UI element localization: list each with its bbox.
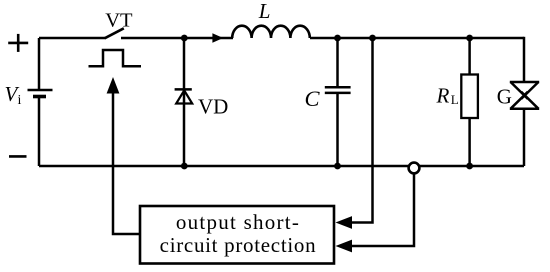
junction dot at sense line top xyxy=(369,35,376,42)
wire G branch upper xyxy=(523,37,526,82)
pulse waveform symbol xyxy=(89,50,142,66)
switch VT blade xyxy=(105,28,124,38)
junction dot at diode top xyxy=(181,35,188,42)
inductor L xyxy=(232,26,310,38)
wire capacitor branch upper xyxy=(336,38,339,88)
gate drive arrowhead xyxy=(107,77,120,94)
wire bottom rail xyxy=(39,165,524,168)
svg-text:i: i xyxy=(18,93,22,108)
wire top rail from switch to inductor xyxy=(121,37,233,40)
svg-text:circuit protection: circuit protection xyxy=(160,233,317,257)
wire G branch lower xyxy=(523,109,526,166)
svg-text:output short-: output short- xyxy=(176,210,300,234)
sense wire arrowhead into box xyxy=(336,216,353,229)
resistor RL body xyxy=(461,75,478,119)
wire top rail left segment xyxy=(39,37,106,40)
battery Vi xyxy=(28,90,53,97)
wire resistor branch upper xyxy=(468,38,471,75)
svg-text:VT: VT xyxy=(105,10,133,32)
gate drive wire from protection box to VT xyxy=(113,90,140,234)
plus terminal xyxy=(8,34,28,52)
svg-text:R: R xyxy=(436,84,450,108)
junction dot at resistor top xyxy=(466,35,473,42)
junction dot at capacitor top xyxy=(334,35,341,42)
svg-text:VD: VD xyxy=(198,94,228,118)
wire left branch lower xyxy=(38,97,41,167)
junction dot at resistor bottom xyxy=(466,163,473,170)
svg-text:G: G xyxy=(497,85,512,109)
wire resistor branch lower xyxy=(468,118,471,166)
wire top rail from inductor to right edge xyxy=(310,37,524,40)
svg-text:C: C xyxy=(305,86,321,111)
voltage sense wire to protection box xyxy=(348,38,373,223)
current sense wire to protection box xyxy=(348,173,414,246)
svg-text:L: L xyxy=(451,92,459,107)
svg-text:L: L xyxy=(258,0,271,23)
current sense arrowhead into box xyxy=(336,240,353,253)
capacitor C plates xyxy=(325,87,351,93)
protection box xyxy=(140,206,334,264)
minus terminal xyxy=(9,155,27,158)
junction dot at capacitor bottom xyxy=(334,163,341,170)
current flow arrowhead on wire xyxy=(212,33,223,43)
current sensor node circle xyxy=(409,163,420,174)
junction dot at diode bottom xyxy=(181,163,188,170)
wire capacitor branch lower xyxy=(336,93,339,166)
wire diode branch upper xyxy=(183,38,186,89)
wire diode branch lower xyxy=(183,89,186,166)
diode VD xyxy=(175,89,193,103)
device G bowtie symbol xyxy=(510,82,539,109)
wire left branch upper xyxy=(38,38,41,90)
